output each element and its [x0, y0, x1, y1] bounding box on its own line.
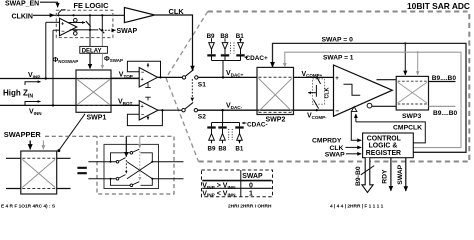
wire FE sense VINN: [52, 30, 54, 105]
svg-text:SWP1: SWP1: [87, 115, 107, 122]
switch reset pair: [313, 77, 320, 108]
wire VDAC+: [198, 76, 257, 78]
switch S1: [182, 76, 185, 79]
hysteresis symbol: [344, 84, 361, 95]
switch FE S-top: [86, 21, 91, 27]
svg-text:+: +: [335, 76, 339, 82]
junction CLKIN-comparator: [72, 14, 74, 16]
swapper detail box: [21, 151, 57, 194]
svg-text:S2: S2: [198, 113, 206, 120]
arrow SWAP out: [405, 158, 407, 191]
ADC boundary chevron: [166, 12, 208, 162]
svg-text:+: +: [141, 104, 144, 110]
junction CDAC+-VDAC+: [222, 76, 224, 78]
wire SWAP out dashed: [105, 29, 116, 31]
wire buffer-top out: [158, 76, 183, 78]
supply arrow buffer-top: [147, 63, 149, 67]
output bubble: [367, 103, 372, 108]
wire SWAP=1 feedback gray: [285, 52, 461, 147]
svg-text:CDAC-: CDAC-: [247, 122, 268, 129]
svg-text:SWP2: SWP2: [266, 116, 286, 123]
junction sense-VINN: [52, 104, 54, 106]
svg-text:B8: B8: [220, 33, 228, 40]
svg-text:CMPCLK: CMPCLK: [393, 125, 422, 132]
wire B9..B0 top: [429, 81, 456, 83]
op-amp FE comparator: [60, 18, 77, 35]
wire SWAP in: [346, 153, 361, 155]
svg-text:B1: B1: [236, 33, 244, 40]
arrow CDAC- pointer: [242, 122, 247, 124]
eq straight rails: [111, 149, 153, 186]
node Qbar: [74, 32, 78, 36]
svg-text:1: 1: [249, 190, 253, 197]
equals: [77, 168, 86, 173]
arrow VCM: [308, 92, 316, 94]
wire Qbar out: [70, 29, 99, 31]
callout line: [59, 114, 85, 150]
svg-text:FE LOGIC: FE LOGIC: [74, 1, 110, 10]
svg-text:RDY: RDY: [381, 169, 388, 184]
wire B9..B0 bottom gray: [429, 105, 456, 107]
eq control lines: [125, 136, 127, 156]
DELAY box: [80, 46, 108, 53]
junction CLKIN-vert1: [89, 14, 91, 16]
svg-text:CLKIN: CLKIN: [12, 13, 33, 20]
svg-text:S1: S1: [198, 81, 206, 88]
svg-text:B1: B1: [235, 145, 243, 152]
svg-text:SWAP: SWAP: [397, 164, 404, 184]
svg-text:CDAC+: CDAC+: [246, 55, 268, 62]
svg-text:SWAP_EN: SWAP_EN: [5, 1, 39, 8]
wire FE input bottom: [53, 29, 60, 31]
svg-text:E 4 R F 1O1R 4RC 4): E 4 R F 1O1R 4RC 4) : S: [1, 204, 56, 210]
svg-text:SWAPPER: SWAPPER: [4, 130, 42, 139]
wire SWAP=0 feedback: [273, 43, 467, 152]
inner box: [104, 144, 159, 188]
svg-text:SWAP: SWAP: [242, 173, 263, 180]
bus arrow B9-B0: [362, 158, 373, 193]
svg-text:B9....B0: B9....B0: [432, 75, 457, 82]
junction feedback-top: [159, 76, 161, 78]
junction reset-VCOMP+: [316, 76, 318, 78]
svg-text:SWAP: SWAP: [117, 28, 138, 35]
svg-text:0: 0: [249, 183, 253, 190]
capacitor array CDAC+: [207, 38, 244, 77]
svg-text:REGISTER: REGISTER: [366, 150, 401, 157]
wire CLKIN: [33, 14, 54, 16]
wire phi_noswap: [89, 53, 91, 68]
svg-text:2HRI 2HRR I OHRH: 2HRI 2HRR I OHRH: [228, 204, 272, 210]
wire CLK: [155, 15, 193, 71]
switch SWAP_EN: [58, 9, 66, 14]
junction Qbar-vert1: [89, 29, 91, 31]
junction SWAP=0-SWP3: [404, 42, 406, 44]
wire comp out top: [377, 79, 397, 81]
wire FE vert2: [101, 15, 103, 30]
junction SWAP=1-SWP3: [417, 51, 419, 53]
wire VTOP: [111, 77, 139, 79]
svg-text:SWP3: SWP3: [402, 113, 421, 120]
wire S1-S2 gang dashed: [191, 79, 193, 101]
wire CMPRDY: [351, 112, 361, 141]
clock mark: [351, 107, 357, 112]
FE LOGIC dashed box: [56, 10, 113, 37]
svg-text:CMPRDY: CMPRDY: [312, 138, 342, 145]
wire CLK in: [346, 146, 362, 148]
arrow CDAC+ pointer: [245, 56, 248, 58]
svg-text:DELAY: DELAY: [82, 48, 102, 54]
supply bar buffer-bottom: [145, 97, 150, 100]
wire FE vert1: [89, 15, 91, 46]
junction CLKIN-vert2: [101, 14, 103, 16]
wire CMPCLK: [355, 114, 357, 122]
wire phi_swap: [101, 53, 103, 68]
table SWAP: [202, 170, 273, 197]
arrow RDY: [390, 158, 392, 191]
svg-text:4 | 4 4 | 2HRR | F 1 1: 4 | 4 4 | 2HRR | F 1 1 1 1: [330, 204, 384, 210]
swapper SWP3: [396, 76, 428, 110]
control logic box: [363, 133, 414, 158]
svg-text:CLK: CLK: [324, 87, 330, 98]
capacitor array CDAC-: [207, 110, 243, 143]
eq port wires: [88, 162, 116, 179]
wire buffer-bot out: [158, 109, 182, 111]
arrow hook bottom: [25, 102, 41, 106]
ground arrow buffer-bottom: [147, 115, 149, 119]
wire VINP: [0, 78, 139, 80]
svg-text:SWAP = 0: SWAP = 0: [322, 36, 354, 43]
comparator input switch w/ CLK: [312, 79, 324, 104]
svg-text:B9: B9: [208, 145, 216, 152]
wire FE input top: [46, 21, 60, 23]
junction reset-VCOMP-: [316, 109, 318, 111]
svg-text:SWAP = 1: SWAP = 1: [323, 55, 354, 62]
wire feedback buffer-bottom: [127, 110, 162, 125]
junction CDAC--VDAC-: [221, 109, 223, 111]
swapper SWP1: [76, 70, 111, 112]
arrow hook top: [25, 82, 41, 85]
comparator U1: [334, 65, 393, 116]
wire SWAP_EN: [40, 2, 58, 7]
equivalent circuit dashed box: [45, 136, 174, 194]
ground buffer-top: [145, 83, 150, 88]
wire VBOT: [111, 104, 139, 106]
wire VINN: [0, 104, 139, 106]
swapper SWP2: [257, 67, 294, 114]
wire Q out: [68, 22, 85, 24]
svg-text:B8: B8: [218, 145, 226, 152]
node Q: [74, 18, 78, 22]
switch S2: [182, 109, 185, 112]
wire VCOMP+: [294, 76, 334, 78]
svg-text:LOGIC &: LOGIC &: [369, 143, 398, 150]
svg-text:B9: B9: [207, 33, 215, 40]
svg-text:SWAP: SWAP: [325, 152, 345, 159]
wire comp out bottom: [372, 105, 396, 107]
op-amp buffer bottom: [139, 101, 158, 120]
wire feedback buffer-top: [127, 61, 160, 77]
caption fragments: [1, 204, 384, 210]
svg-text:CONTROL: CONTROL: [367, 136, 401, 143]
eq input switches: [116, 158, 125, 180]
ADC dashed boundary: [199, 12, 470, 162]
svg-text:B9-B0: B9-B0: [355, 166, 362, 186]
junction sense-VINP: [45, 77, 47, 79]
wire FE sense VINP: [45, 22, 47, 78]
control arrows swapper: [29, 141, 31, 150]
svg-text:B9....B0: B9....B0: [433, 110, 458, 117]
buffer CLK: [124, 8, 154, 23]
eq cross diagonals: [127, 162, 152, 179]
junction Qbar-vert2: [101, 29, 103, 31]
svg-text:+: +: [141, 77, 144, 83]
junction CLKIN-SWAP_EN: [57, 14, 59, 16]
switch FE S-bot: [99, 28, 104, 33]
svg-text:10BIT SAR ADC: 10BIT SAR ADC: [407, 1, 470, 11]
junction feedback-bottom: [161, 109, 163, 111]
wire VDAC-: [198, 109, 334, 111]
svg-text:−: −: [335, 108, 339, 115]
op-amp buffer top: [139, 68, 157, 88]
